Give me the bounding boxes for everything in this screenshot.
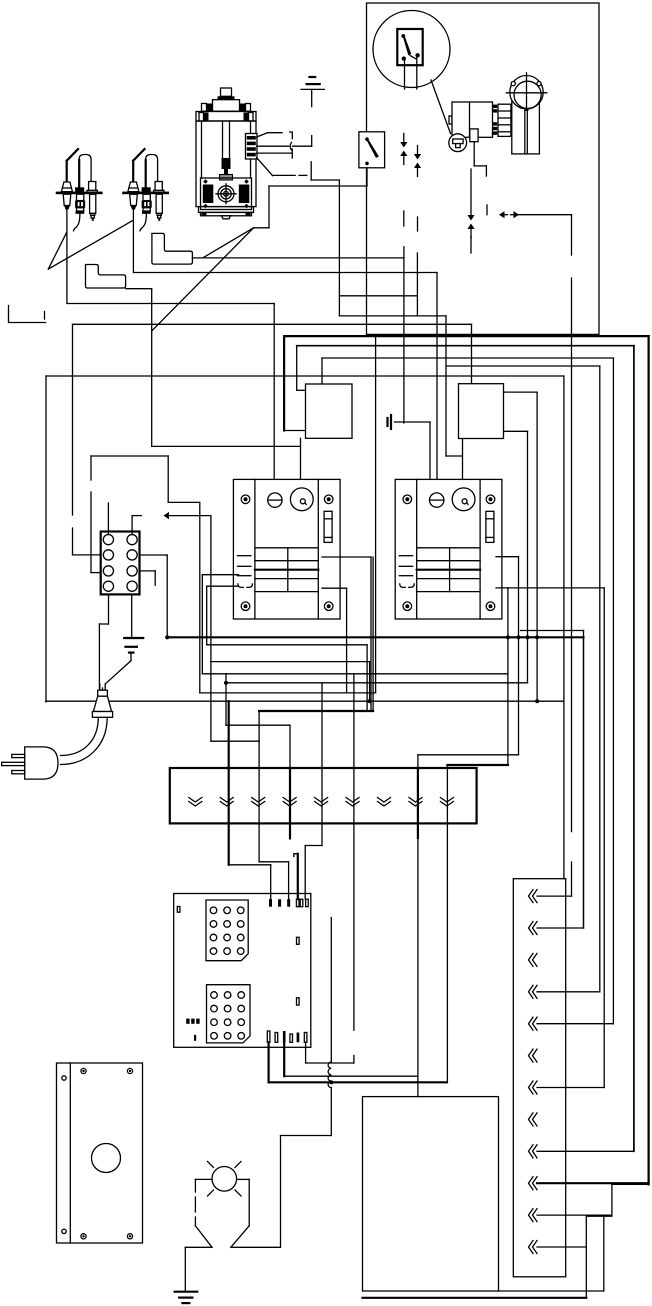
- transformer T2: [459, 384, 504, 439]
- gas valve assembly: [196, 88, 257, 219]
- wire H324: [73, 323, 472, 325]
- wire dashed segment B: [417, 217, 419, 231]
- cord conductors: [99, 684, 101, 696]
- cover plate: [57, 1063, 143, 1243]
- board side pads: [297, 937, 300, 944]
- wire bus H741: [211, 740, 259, 742]
- wire V633: [633, 346, 635, 1152]
- wire V210: [210, 516, 212, 742]
- wire K1 right lead 1: [322, 556, 371, 558]
- wire V72 to block row2: [72, 324, 74, 515]
- board mark: [177, 907, 180, 913]
- enclosure box outline: [367, 3, 600, 334]
- transformer T1: [306, 384, 353, 438]
- wire H376 mains: [46, 375, 564, 377]
- strip chevron 10: [529, 1177, 534, 1190]
- wire TB row3 left feed: [91, 455, 168, 457]
- wire H1076: [284, 1075, 418, 1077]
- wire strip feed p2: [228, 701, 230, 768]
- relay module K1: [233, 479, 340, 619]
- wire valve feed H180: [311, 179, 339, 181]
- wire K1 left lead 2: [207, 585, 239, 587]
- wire K1 right lead 2: [322, 587, 347, 589]
- switch SW2 box: [359, 132, 385, 168]
- wire p8 below: [417, 768, 419, 838]
- ground symbol G1 (valve): [301, 77, 324, 180]
- pressure switch terminal: [470, 129, 478, 142]
- terminal chevron 6: [346, 798, 359, 803]
- wire bell right: [237, 1178, 250, 1180]
- wire from L2: [126, 288, 152, 290]
- wire mains bus H701: [46, 700, 564, 702]
- wire K1 left lead 1: [202, 574, 238, 576]
- wire V571: [571, 215, 573, 255]
- wire bus H683: [226, 682, 528, 684]
- wire vertical x417: [416, 253, 418, 316]
- relay module K2: [395, 479, 502, 619]
- wire bus H662: [211, 661, 370, 663]
- wire L2 riser: [151, 289, 153, 447]
- pressure switch: [449, 134, 467, 152]
- terminal chevron 1: [189, 798, 202, 803]
- wire chev5: [537, 1023, 613, 1025]
- plug prongs: [12, 754, 25, 757]
- keypad block 2: [207, 985, 251, 1043]
- strip chevron 9: [529, 1145, 534, 1158]
- wire igniter IG2 electrode: [132, 210, 134, 273]
- igniter electrode assembly IG1: [56, 149, 103, 231]
- terminal strip TS1: [170, 768, 477, 823]
- wire igniter IG1 electrode: [66, 210, 68, 304]
- blower motor assembly: [449, 73, 547, 154]
- wire p3 below: [258, 768, 260, 862]
- wire K2 right lead 1: [496, 556, 519, 558]
- wire from L1: [192, 257, 404, 259]
- callout pointer V2: [254, 227, 269, 229]
- wire H1135 to bell: [281, 1135, 332, 1137]
- wire bell left: [195, 1178, 212, 1180]
- wire H366: [446, 365, 600, 367]
- wire board pin A: [268, 1042, 270, 1082]
- wire TB top-right riser: [131, 516, 133, 535]
- wire TB row2 right: [140, 554, 168, 556]
- wire ground stem: [130, 653, 132, 661]
- wire valve connector lead 2 ground: [257, 145, 289, 147]
- strip chevron 12: [529, 1241, 534, 1254]
- wire H630: [521, 630, 584, 632]
- terminal strip TS2: [513, 879, 565, 1277]
- strip chevron 11: [529, 1209, 534, 1222]
- strip chevron 8: [529, 1113, 534, 1126]
- wire dashed segment A: [403, 211, 405, 226]
- connector pair P2: [417, 146, 419, 155]
- wire bus H674: [202, 673, 508, 675]
- wire V226: [225, 674, 227, 725]
- limit switch detail rect: [397, 29, 422, 65]
- wire H316: [339, 315, 446, 317]
- callout pointer V1: [48, 232, 67, 269]
- ground symbol G-mid: [386, 418, 388, 426]
- switch blade: [403, 35, 412, 56]
- wire TB bottom right to ground: [131, 594, 133, 638]
- wire valve connector lead 3: [257, 152, 293, 154]
- terminal chevron 8: [409, 798, 422, 803]
- wire H754 strip feed p8: [418, 754, 519, 756]
- wire T2 lead 1: [504, 391, 537, 393]
- wire H1082: [269, 1081, 447, 1083]
- wire valve connector lead 4: [257, 158, 273, 176]
- board top pins: [269, 899, 272, 907]
- terminal block TB: [101, 532, 140, 595]
- wire with coil V331: [330, 918, 332, 1063]
- strip chevron 6: [529, 1049, 534, 1062]
- wire bus H637: [167, 636, 583, 638]
- wire SW2 lead: [366, 168, 368, 186]
- terminal chevron 5: [315, 798, 328, 803]
- board bottom pins: [267, 1031, 270, 1042]
- wire H296: [339, 295, 417, 297]
- wire p5: [321, 683, 323, 846]
- strip chevron 2: [529, 922, 534, 935]
- strip chevron 3: [529, 953, 534, 966]
- terminal lug L2: [86, 265, 126, 289]
- wire H1298: [363, 1297, 587, 1299]
- wire pin4 stub: [294, 854, 298, 857]
- wire chev11: [537, 1214, 612, 1216]
- detail balloon circle: [373, 11, 450, 88]
- wire bell bottom left: [185, 1246, 212, 1248]
- wire chev1: [537, 895, 572, 897]
- wire chev12: [537, 1246, 586, 1248]
- wire chev4: [537, 991, 600, 993]
- ground symbol G3: [175, 1291, 198, 1293]
- connector pair P1: [403, 134, 405, 143]
- page bracket mark: [9, 306, 46, 323]
- spark gap igniter: [212, 1167, 237, 1192]
- wire p9 below: [446, 768, 448, 1082]
- wire chev7: [537, 1087, 604, 1089]
- wire strip feed p3: [258, 711, 260, 768]
- wire V603 bottom: [603, 1215, 605, 1291]
- wire strip feed p6: [353, 674, 355, 768]
- wire bell bottom right: [231, 1246, 281, 1248]
- wire bus H711: [259, 710, 373, 712]
- wire H358: [322, 357, 613, 359]
- wire H336: [284, 335, 648, 337]
- wire V648: [647, 336, 649, 1184]
- cord bushing: [98, 690, 108, 696]
- wire bus H693: [200, 692, 376, 694]
- wire V583 to strip2 chev2: [583, 637, 585, 928]
- wire from P4 to right: [519, 214, 572, 216]
- terminal chevron 9: [440, 798, 453, 803]
- connector pair P4 horizontal: [499, 211, 505, 218]
- junction box: [363, 1097, 499, 1291]
- terminal chevron 4: [283, 798, 296, 803]
- wire valve connector lead 1: [257, 133, 268, 137]
- wire p4 below: [289, 768, 291, 838]
- wire bus H645: [207, 644, 367, 646]
- power cord: [61, 717, 99, 755]
- wire TB row3 right: [140, 570, 156, 572]
- wire H765 strip feed p9: [447, 764, 508, 766]
- wire T2 lead 2: [504, 430, 528, 432]
- wire V375: [375, 336, 377, 693]
- wire vertical x404: [403, 247, 405, 423]
- wire H303 ig1 to relay1: [67, 303, 274, 305]
- balloon pointer: [431, 80, 451, 134]
- wire H272 ig2 to relay2: [134, 272, 437, 274]
- wire V168: [167, 456, 169, 502]
- wire stub to P4: [486, 205, 488, 215]
- wire chev10: [537, 1182, 649, 1184]
- terminal chevron 3: [252, 798, 265, 803]
- wire V604: [603, 588, 605, 1088]
- wire chev9: [537, 1150, 634, 1152]
- wire V563: [563, 376, 565, 879]
- arrow connector to TB: [164, 512, 170, 519]
- wire V583: [583, 631, 585, 929]
- strip chevron 5: [529, 1017, 534, 1030]
- terminal chevron 7: [378, 798, 391, 803]
- wire valve feed vertical: [338, 180, 340, 316]
- strip chevron 4: [529, 985, 534, 998]
- control board PCB: [174, 894, 311, 1048]
- strip chevron 1: [529, 890, 534, 903]
- power plug: [25, 747, 58, 779]
- igniter electrode assembly IG2: [122, 149, 169, 231]
- wire chev2: [537, 927, 584, 929]
- wire p2 below: [228, 768, 230, 865]
- wire bus H725: [226, 724, 290, 726]
- wire V446: [445, 316, 447, 456]
- wire TB top-left stub: [107, 503, 109, 535]
- connector pair P3: [470, 169, 472, 206]
- wire balloon lead 2: [416, 57, 418, 89]
- wire pressure switch lead: [473, 142, 475, 166]
- terminal chevron 2: [220, 798, 233, 803]
- wire balloon lead 1: [404, 59, 406, 89]
- ground symbol G2: [124, 637, 143, 639]
- wire p6 below: [353, 768, 355, 1030]
- wire H1291: [499, 1290, 604, 1292]
- wire TB bottom left: [108, 594, 110, 624]
- board smd parts: [186, 1019, 189, 1024]
- wire H346: [297, 345, 634, 347]
- strip chevron 7: [529, 1081, 534, 1094]
- wire V599: [599, 366, 601, 992]
- wire V613: [612, 358, 614, 1024]
- keypad block 1: [206, 900, 248, 961]
- terminal lug L1: [152, 233, 193, 264]
- wire K2 right lead 2: [496, 587, 604, 589]
- wire board pin C: [305, 1042, 307, 1063]
- wire V462 to relay2 coil: [462, 439, 464, 489]
- wire board pin B: [283, 1042, 285, 1076]
